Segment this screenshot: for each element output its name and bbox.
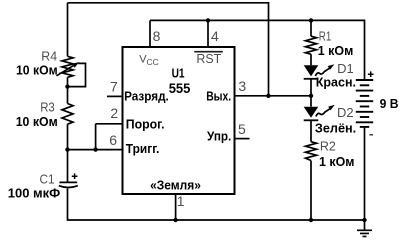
wire: left rail top segment down to R4 [67, 3, 69, 57]
svg-text:RST: RST [196, 51, 221, 66]
pin 7 stub [107, 95, 123, 97]
svg-text:6: 6 [109, 132, 117, 148]
svg-text:1 кОм: 1 кОм [319, 154, 354, 169]
svg-text:U1: U1 [172, 66, 185, 81]
LED D2 cathode bar [304, 119, 319, 121]
pin 4 lead [207, 20, 209, 47]
battery BT1 minus sign [369, 134, 373, 136]
wire: R2 bottom lead to ground rail [310, 161, 312, 221]
svg-text:10 кОм: 10 кОм [16, 114, 58, 129]
svg-text:C1: C1 [40, 171, 55, 186]
node: LED junction dot [309, 94, 313, 98]
svg-text:Красн.: Красн. [316, 75, 356, 90]
wire: output net top rail from left rail to vertical drop [68, 3, 269, 96]
node: pin1 ground junction dot [173, 218, 177, 222]
node: R1 top junction dot [309, 18, 313, 22]
capacitor C1 plus sign [72, 173, 78, 179]
resistor R2 zigzag [306, 142, 317, 161]
ground symbol stub [364, 220, 366, 230]
svg-text:7: 7 [110, 78, 118, 94]
pin 3 output wire to LED junction [235, 95, 312, 97]
resistor R1 zigzag [306, 36, 317, 54]
svg-text:1 кОм: 1 кОм [318, 43, 354, 58]
svg-text:9 В: 9 В [380, 96, 399, 111]
svg-text:555: 555 [169, 81, 191, 96]
resistor R4 zigzag [62, 56, 73, 77]
svg-text:8: 8 [153, 28, 161, 44]
svg-text:Вых.: Вых. [206, 88, 231, 103]
svg-text:R2: R2 [320, 139, 336, 154]
pin 1 lead [175, 194, 177, 220]
svg-text:VCC: VCC [139, 53, 159, 67]
node: output/top-rail junction dot [266, 94, 270, 98]
IC U1 555 box [123, 47, 235, 194]
wire: pin 6 net to left rail [68, 149, 123, 151]
wire: R4 bottom lead to junction [67, 77, 69, 86]
wire: R3 bottom to trigger-net junction [67, 124, 69, 182]
wire: D2 cathode to R2 [310, 120, 312, 141]
pin 2 stub [96, 124, 123, 150]
svg-text:«Земля»: «Земля» [150, 178, 201, 193]
svg-text:Разряд.: Разряд. [124, 89, 169, 104]
potentiometer R4 wiper arrow [57, 66, 74, 76]
node: ground corner junction dot [362, 218, 366, 222]
wire: battery negative lead down to ground corner [364, 127, 366, 220]
wire: R4 wiper return bracket [68, 63, 86, 86]
svg-text:R4: R4 [41, 49, 57, 64]
svg-text:R1: R1 [319, 29, 332, 44]
resistor R3 zigzag [62, 104, 73, 125]
wire: D1 cathode to output node [310, 79, 312, 107]
node: pin2/pin6 junction dot [93, 147, 97, 151]
svg-text:100 мкФ: 100 мкФ [8, 185, 60, 200]
svg-text:Упр.: Упр. [207, 128, 231, 143]
svg-text:Порог.: Порог. [126, 116, 165, 131]
wire: Vcc rail to battery plus [150, 20, 365, 80]
LED D1 triangle [304, 65, 319, 76]
pin name RST with overline [194, 51, 223, 53]
svg-text:10 кОм: 10 кОм [16, 63, 58, 78]
wire: R1 top lead [310, 20, 312, 36]
svg-text:Тригг.: Тригг. [126, 141, 160, 156]
LED D2 emission squiggle arrow [316, 109, 330, 117]
LED D2 triangle [304, 107, 319, 118]
svg-text:5: 5 [238, 121, 246, 137]
pin 8 lead [149, 20, 151, 47]
capacitor C1 bottom curved plate [59, 186, 78, 188]
wire: between R4 junction and R3 [67, 87, 69, 104]
svg-text:2: 2 [110, 105, 118, 121]
pin 5 stub [235, 138, 250, 140]
node: trigger net junction dot on left rail [65, 147, 69, 151]
svg-text:D2: D2 [337, 105, 354, 120]
LED D1 emission squiggle arrow [315, 68, 329, 76]
capacitor C1 (polarized) top plate [60, 181, 78, 183]
battery BT1 plates [356, 80, 373, 127]
node: pin4 junction dot [206, 18, 210, 22]
svg-text:1: 1 [177, 193, 185, 209]
ground symbol bars [357, 230, 372, 236]
node: R2 ground junction dot [309, 218, 313, 222]
svg-text:R3: R3 [40, 99, 55, 114]
svg-text:Зелён.: Зелён. [315, 121, 356, 136]
node: R4 wiper junction dot [65, 84, 69, 88]
svg-text:4: 4 [211, 28, 219, 44]
battery BT1 plus sign [368, 71, 374, 77]
wire: C1 bottom lead down to ground rail [68, 188, 365, 220]
svg-text:3: 3 [238, 78, 246, 94]
LED D1 cathode bar [304, 78, 319, 80]
wire: R1 bottom lead to D1 [310, 54, 312, 65]
